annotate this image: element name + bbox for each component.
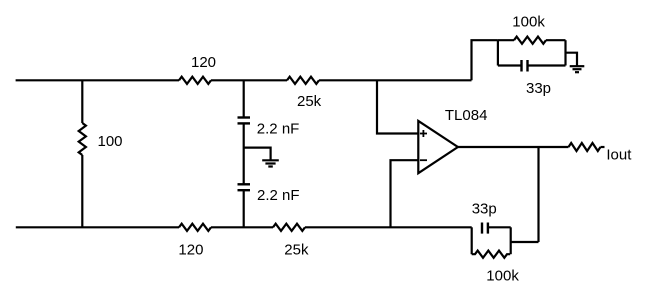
wire output stub bbox=[601, 146, 605, 148]
capacitor 33p (top feedback) bbox=[522, 60, 528, 72]
capacitor 2.2 nF (upper) bbox=[238, 118, 251, 124]
wire feedback left bracket (top) bbox=[497, 40, 499, 65]
wire 33p lead right (bottom) bbox=[488, 226, 511, 228]
wire 100k lead right (top) bbox=[546, 39, 566, 41]
ground (top right) bbox=[570, 66, 585, 72]
wire inverting input tap bbox=[391, 160, 419, 227]
wire ground tap (top right) bbox=[566, 53, 578, 66]
wire 33p lead left (top) bbox=[498, 64, 522, 66]
resistor 100k (bottom feedback) bbox=[472, 251, 510, 258]
svg-text:25k: 25k bbox=[297, 93, 322, 110]
op-amp U1 TL084 bbox=[418, 121, 458, 173]
wire feedback riser (top) bbox=[472, 40, 498, 80]
op-amp minus input marker bbox=[420, 159, 427, 161]
wire top rail right segment bbox=[319, 79, 472, 81]
wire bottom rail right segment bbox=[305, 226, 472, 228]
svg-text:2.2 nF: 2.2 nF bbox=[257, 187, 300, 204]
resistor 120 (top) bbox=[179, 77, 211, 84]
svg-text:33p: 33p bbox=[526, 80, 551, 97]
resistor 100 bbox=[79, 123, 86, 155]
ground (middle) bbox=[262, 160, 279, 166]
svg-text:25k: 25k bbox=[284, 242, 309, 259]
svg-text:100k: 100k bbox=[512, 14, 545, 31]
wire bottom rail left segment bbox=[16, 226, 179, 228]
capacitor 33p (bottom feedback) bbox=[482, 223, 488, 234]
wire output junction down bbox=[537, 147, 539, 242]
resistor output (Iout) bbox=[569, 143, 601, 151]
resistor 100k (top feedback) bbox=[514, 37, 546, 44]
wire capacitor chain middle bbox=[243, 123, 245, 184]
svg-text:120: 120 bbox=[191, 54, 216, 71]
wire left branch lower bbox=[81, 155, 83, 227]
wire feedback right bracket (top) bbox=[564, 40, 566, 65]
resistor 25k (bottom) bbox=[273, 224, 305, 231]
resistor 120 (bottom) bbox=[179, 224, 211, 231]
svg-text:120: 120 bbox=[178, 242, 203, 259]
wire output tap (bottom feedback) bbox=[511, 241, 539, 243]
wire 33p lead right (top) bbox=[528, 64, 566, 66]
wire feedback left bracket (bottom) bbox=[471, 227, 473, 254]
svg-text:33p: 33p bbox=[472, 200, 497, 217]
resistor 25k (top) bbox=[287, 77, 319, 84]
svg-text:Iout: Iout bbox=[606, 147, 632, 164]
wire 100k lead left (top) bbox=[498, 39, 514, 41]
wire capacitor chain top bbox=[243, 80, 245, 117]
wire op-amp output bbox=[458, 146, 569, 148]
wire left branch upper bbox=[81, 80, 83, 123]
wire capacitor chain bottom bbox=[243, 190, 245, 227]
capacitor 2.2 nF (lower) bbox=[238, 184, 251, 190]
svg-text:TL084: TL084 bbox=[445, 107, 488, 124]
svg-text:100k: 100k bbox=[486, 268, 519, 285]
wire bottom rail mid segment bbox=[211, 226, 273, 228]
op-amp plus input marker bbox=[420, 130, 427, 137]
wire non-inverting input tap bbox=[377, 80, 418, 133]
svg-text:2.2 nF: 2.2 nF bbox=[257, 121, 300, 138]
wire feedback right bracket (bottom) bbox=[510, 227, 512, 254]
svg-text:100: 100 bbox=[98, 133, 123, 150]
wire top rail mid segment bbox=[211, 79, 287, 81]
wire top rail left segment bbox=[16, 79, 179, 81]
wire ground stub (middle) bbox=[244, 148, 271, 161]
